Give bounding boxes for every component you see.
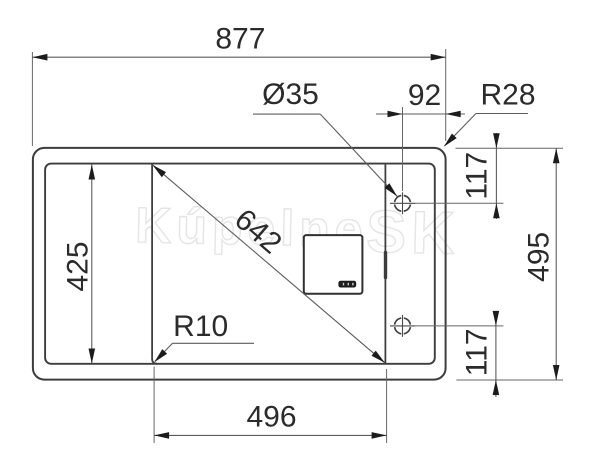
svg-text:117: 117 [461, 328, 494, 376]
svg-text:92: 92 [408, 79, 441, 112]
svg-text:877: 877 [215, 22, 265, 55]
svg-text:495: 495 [523, 232, 556, 282]
svg-text:R10: R10 [173, 310, 228, 343]
svg-text:R28: R28 [480, 79, 535, 112]
svg-text:117: 117 [461, 152, 494, 200]
svg-text:496: 496 [246, 401, 296, 434]
svg-text:425: 425 [62, 241, 95, 291]
svg-text:Ø35: Ø35 [262, 78, 319, 111]
